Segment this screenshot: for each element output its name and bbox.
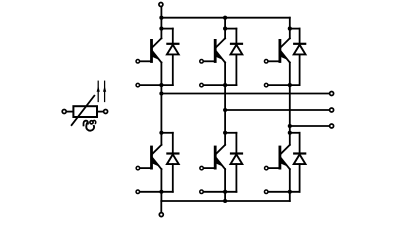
node collector jog bottom leg3 — [288, 131, 292, 135]
wire — [224, 63, 226, 111]
diode D3 (top freewheel) — [293, 43, 306, 45]
wire — [172, 54, 174, 85]
node emitter aux leg2 — [223, 83, 227, 87]
diode D1 (top freewheel) — [166, 43, 179, 45]
wire — [140, 191, 173, 193]
gate terminal circle Q5 — [200, 166, 204, 170]
wire — [97, 111, 103, 113]
wire — [161, 132, 172, 134]
diode D2 (top freewheel) — [230, 43, 243, 45]
N bus rail — [161, 200, 289, 202]
node emitter aux bottom leg1 — [159, 190, 163, 194]
wire — [172, 29, 174, 43]
thermistor terminal circle right — [104, 110, 108, 114]
diode D5 (bottom freewheel) — [230, 152, 243, 154]
wire — [299, 54, 301, 85]
node N leg2 — [223, 199, 227, 203]
wire — [289, 169, 291, 201]
node P leg1 — [159, 16, 163, 20]
emitter aux terminal circle Q6 — [264, 190, 268, 194]
wire — [289, 63, 291, 127]
wire — [235, 29, 237, 43]
wire — [268, 84, 299, 86]
node emitter aux bottom leg3 — [288, 190, 292, 194]
wire — [224, 110, 226, 145]
node collector jog bottom leg1 — [159, 131, 163, 135]
gate terminal circle Q1 — [136, 60, 140, 64]
wire (phase output 2) — [225, 109, 329, 111]
wire — [66, 111, 73, 113]
wire — [235, 54, 237, 85]
terminal AC phase 1 — [330, 92, 334, 96]
transistor Q4 (bottom IGBT) — [150, 146, 153, 170]
wire — [225, 132, 236, 134]
wire — [160, 201, 162, 212]
wire — [172, 133, 174, 153]
emitter aux terminal circle Q1 — [136, 83, 140, 87]
terminal DC+ — [159, 3, 163, 7]
wire — [235, 133, 237, 153]
emitter aux terminal circle Q2 — [200, 83, 204, 87]
emitter aux terminal circle Q3 — [264, 83, 268, 87]
wire (phase output 3) — [290, 125, 329, 127]
gate terminal circle Q6 — [265, 166, 269, 170]
gate terminal circle Q3 — [264, 60, 268, 64]
terminal DC- — [159, 213, 163, 217]
wire — [299, 133, 301, 153]
transistor Q1 (top IGBT) — [150, 39, 153, 63]
thermistor arrow 1 — [97, 81, 99, 101]
wire — [160, 7, 162, 18]
transistor Q2 (top IGBT) — [214, 39, 217, 63]
wire — [299, 164, 301, 192]
node phase output leg3 — [288, 124, 292, 128]
wire — [224, 169, 226, 201]
wire — [289, 126, 291, 145]
thermistor terminal circle left — [62, 110, 66, 114]
wire — [140, 84, 173, 86]
terminal AC phase 3 — [330, 124, 334, 128]
wire — [225, 28, 236, 30]
node phase output leg1 — [159, 91, 163, 95]
thermistor R(NTC) body — [73, 106, 97, 117]
transistor Q5 (bottom IGBT) — [214, 146, 217, 170]
node collector jog bottom leg2 — [223, 131, 227, 135]
diode D6 (bottom freewheel) — [293, 152, 306, 154]
wire — [268, 191, 299, 193]
node phase output leg2 — [223, 108, 227, 112]
node P leg2 — [223, 16, 227, 20]
wire — [289, 18, 291, 39]
node collector jog top leg1 — [159, 27, 163, 31]
wire — [160, 169, 162, 201]
wire — [204, 84, 237, 86]
wire — [160, 94, 162, 145]
node collector jog top leg2 — [223, 27, 227, 31]
thermistor arrow 2 — [104, 81, 106, 101]
gate terminal circle Q4 — [136, 166, 140, 170]
wire — [299, 29, 301, 43]
wire — [161, 28, 172, 30]
node collector jog top leg3 — [288, 27, 292, 31]
wire — [235, 164, 237, 192]
wire (phase output 1) — [161, 93, 329, 95]
P bus rail — [161, 17, 289, 19]
thermistor diagonal stroke — [72, 96, 95, 125]
node emitter aux leg1 — [159, 83, 163, 87]
wire — [160, 18, 162, 39]
diode D4 (bottom freewheel) — [166, 152, 179, 154]
emitter aux terminal circle Q5 — [200, 190, 204, 194]
wire — [204, 191, 237, 193]
thermistor theta label — [83, 120, 95, 130]
transistor Q3 (top IGBT) — [279, 39, 282, 63]
terminal AC phase 2 — [330, 108, 334, 112]
emitter aux terminal circle Q4 — [136, 190, 140, 194]
node emitter aux leg3 — [288, 83, 292, 87]
transistor Q6 (bottom IGBT) — [279, 146, 282, 170]
wire — [290, 132, 300, 134]
wire — [172, 164, 174, 192]
node emitter aux bottom leg2 — [223, 190, 227, 194]
gate terminal circle Q2 — [200, 60, 204, 64]
wire — [224, 18, 226, 39]
wire — [290, 28, 300, 30]
wire — [160, 63, 162, 94]
